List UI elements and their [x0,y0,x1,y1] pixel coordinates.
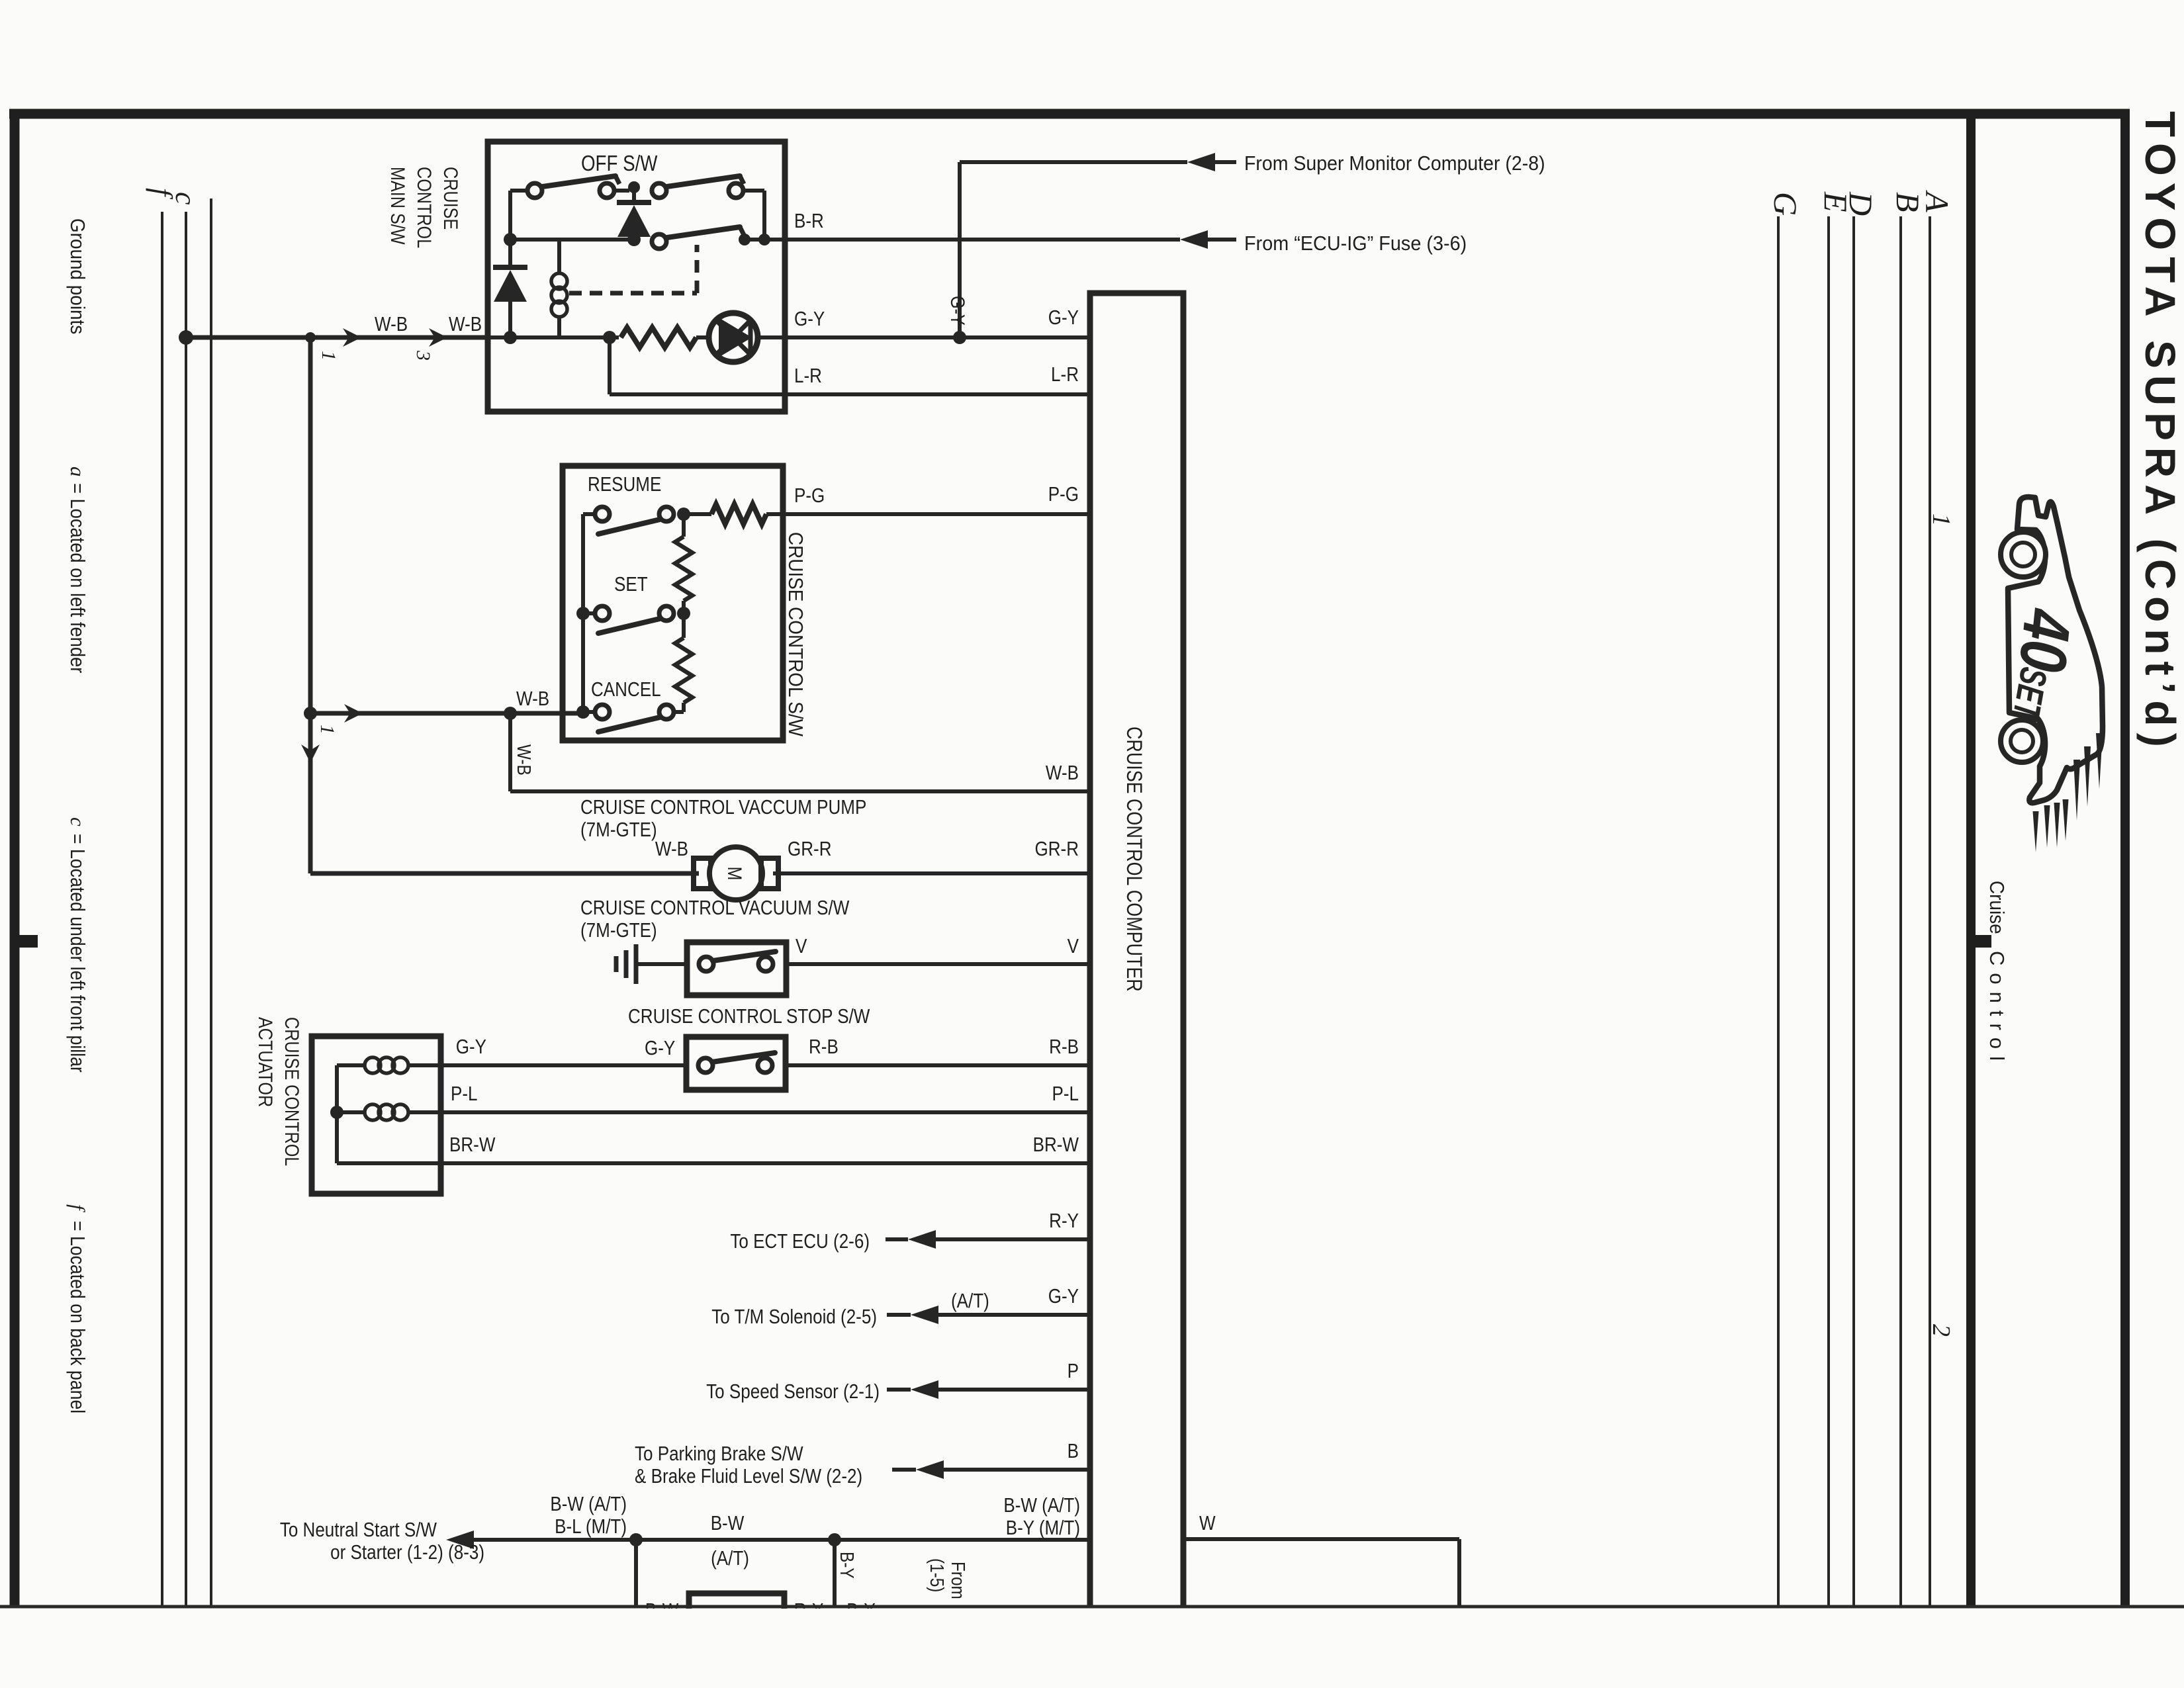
svg-text:B-W (A/T): B-W (A/T) [550,1493,627,1516]
junction relay contact [739,234,751,245]
solenoid coil L2 [337,1110,365,1114]
wire R-B [786,1063,1090,1067]
cruise control main switch box [488,142,785,412]
wire L-R [785,392,1090,396]
wire resume to resistor [684,512,711,516]
svg-text:(7M-GTE): (7M-GTE) [580,919,657,942]
title block left border section tick [1976,935,1991,948]
junction G-Y super monitor [953,331,966,344]
svg-text:= Located on back panel: = Located on back panel [66,1221,88,1413]
terminal off-sw b2 [729,183,743,198]
junction row2 left [504,233,517,246]
wire W-B down to computer run [508,713,512,791]
indicator lamp main-sw [709,313,758,362]
svg-text:(7M-GTE): (7M-GTE) [580,819,657,842]
scan mask below cut [0,1609,2184,1688]
svg-text:CANCEL: CANCEL [591,678,661,701]
pump terminal bracket right [761,858,778,889]
svg-text:W-B: W-B [514,744,535,776]
svg-text:CONTROL: CONTROL [414,167,436,248]
terminal cancel 1 [595,705,610,719]
terminal set 1 [595,606,610,621]
wire G-Y actuator to stop sw [441,1063,686,1067]
svg-text:B: B [1068,1440,1079,1463]
switch lever resume [598,519,660,534]
svg-text:R-Y: R-Y [1049,1210,1079,1233]
wire GR-R [773,871,1090,875]
svg-text:W: W [1199,1512,1216,1535]
terminal resume 2 [659,507,674,521]
switch lever relay-sw [667,227,740,238]
junction row1/row2 merge [758,234,770,245]
svg-text:GR-R: GR-R [1034,838,1079,861]
wire P to speed sensor [887,1388,911,1392]
svg-text:G-Y: G-Y [645,1037,675,1060]
car icon 40SET [2001,497,2103,803]
resistor R2 (resume) [711,504,766,524]
svg-text:BR-W: BR-W [1033,1133,1079,1157]
stop switch box [686,1037,786,1090]
svg-text:To Parking Brake S/W: To Parking Brake S/W [635,1443,803,1466]
switch lever off-sw b [667,176,740,187]
vacuum switch box [687,942,786,995]
svg-text:c: c [169,192,202,205]
svg-text:= Located under left front pil: = Located under left front pillar [66,834,88,1073]
svg-text:& Brake Fluid Level S/W (2-2): & Brake Fluid Level S/W (2-2) [635,1465,862,1488]
connector chevron W-B 1 [343,328,361,347]
svg-text:R-B: R-B [809,1036,839,1059]
wire W [1183,1537,1459,1541]
svg-text:From Super Monitor Computer (2: From Super Monitor Computer (2-8) [1244,152,1545,175]
svg-text:E: E [1817,191,1854,212]
terminal stop sw 1 [698,1058,713,1073]
svg-text:L-R: L-R [794,365,822,388]
svg-text:From: From [948,1562,969,1599]
svg-text:W-B: W-B [655,838,688,861]
wire cancel bus stub [583,710,595,714]
wire main-sw row1 left [510,189,529,193]
svg-text:1: 1 [318,351,340,361]
svg-text:G-Y: G-Y [947,296,970,326]
wire B-W main [469,1538,1090,1542]
svg-text:G: G [1767,192,1804,216]
junction cancel bus [576,705,590,719]
svg-text:From “ECU-IG” Fuse (3-6): From “ECU-IG” Fuse (3-6) [1244,232,1467,255]
solenoid coil L1 [337,1063,365,1067]
svg-text:ACTUATOR: ACTUATOR [255,1017,277,1107]
svg-text:B-L (M/T): B-L (M/T) [555,1515,627,1538]
wire lamp row [488,335,619,339]
svg-text:(A/T): (A/T) [951,1290,989,1313]
svg-text:CRUISE: CRUISE [440,167,463,230]
svg-text:BR-W: BR-W [449,1133,495,1157]
cruise control switch box [563,466,783,740]
svg-text:V: V [796,935,807,958]
actuator bus [335,1065,339,1163]
switch lever stop sw [712,1053,775,1062]
wire resistor to lamp [696,335,709,339]
option net line E [1827,216,1830,1607]
svg-text:3: 3 [412,350,434,361]
wire V [786,962,1090,966]
relay armature dashed link [569,291,697,296]
svg-text:W-B: W-B [1046,762,1079,785]
pump terminal bracket left [694,858,711,889]
svg-text:To Speed Sensor (2-1): To Speed Sensor (2-1) [706,1380,880,1403]
title block right border [2120,109,2130,1607]
resistor R4 (cancel chain) [682,613,686,638]
wire resistor to box edge [766,512,783,516]
arrow to neutral start sw [446,1531,474,1549]
wire B-W drop 1 [634,1540,638,1607]
svg-text:To ECT ECU (2-6): To ECT ECU (2-6) [730,1230,870,1253]
svg-text:= Located on left fender: = Located on left fender [66,483,89,674]
ground symbol [614,956,619,972]
junction W-B cancel branch [304,707,317,720]
wire G-Y main [785,335,1090,339]
option net line B [1899,216,1902,1607]
terminal set 2 [659,606,674,621]
resistor R1 (illumination) [621,328,696,347]
frame left border [10,109,20,1607]
wire B-Y drop [833,1540,837,1607]
ground bus line a [210,199,212,1607]
svg-text:P-G: P-G [1048,483,1079,506]
terminal stop sw 2 [758,1058,772,1073]
svg-text:To T/M Solenoid (2-5): To T/M Solenoid (2-5) [711,1306,877,1329]
wire P-G [783,512,1090,516]
junction B-W branch 1 [629,1533,643,1546]
connector chevron W-B cancel [344,704,363,723]
svg-text:a: a [66,466,89,477]
terminal cancel 2 [659,705,674,719]
wire G-Y to T/M solenoid [887,1313,911,1317]
svg-text:GR-R: GR-R [788,838,832,861]
terminal resume 1 [595,507,610,521]
arrow from ECU-IG fuse [1180,230,1208,249]
wire W-B vertical drop [308,337,313,873]
car speed lines [2096,733,2103,789]
switch lever cancel [598,717,660,732]
scan bottom edge line [0,1605,2184,1609]
junction on ground bus c [179,330,193,345]
title block left border [1966,109,1976,1607]
wire BR-W [337,1161,1090,1165]
terminal vacuum sw 2 [758,957,773,971]
terminal vacuum sw 1 [699,957,713,971]
svg-text:B-Y: B-Y [837,1552,858,1579]
svg-text:B-R: B-R [794,210,824,233]
ground bus line f [161,212,163,1607]
terminal off-sw a2 [600,183,614,198]
wire P-L [441,1110,1090,1114]
junction lamp-row diode [504,331,517,344]
cruise control actuator box [312,1036,441,1194]
wire ground to vacuum sw [636,962,687,966]
resistor R3 (set chain) [682,514,686,537]
wire G-Y to super monitor [958,162,962,337]
svg-text:or Starter (1-2) (8-3): or Starter (1-2) (8-3) [330,1541,484,1564]
ground bus line c [185,212,187,1607]
svg-text:CRUISE CONTROL VACUUM S/W: CRUISE CONTROL VACUUM S/W [580,897,849,920]
terminal off-sw b1 [652,183,666,198]
svg-text:2: 2 [1927,1324,1955,1337]
svg-text:W-B: W-B [449,313,482,336]
wire B to parking brake sw [892,1468,916,1472]
cruise control computer box [1090,293,1183,1607]
frame left border section tick [19,935,38,948]
svg-text:B: B [1889,192,1927,212]
junction set bus [576,607,590,620]
junction row1 diode top [628,181,640,193]
switch lever set [598,619,660,633]
terminal relay-sw 1 [652,234,666,249]
wire resume bus stub [583,512,595,516]
option net line D [1852,216,1855,1607]
svg-text:1: 1 [1927,513,1955,526]
wire lamp to box edge [758,335,785,339]
junction row2 diode bottom [627,233,641,246]
diode D1 (relay clamp) [617,200,651,205]
junction B-W branch 2 [828,1533,841,1546]
svg-text:CRUISE CONTROL S/W: CRUISE CONTROL S/W [784,532,807,736]
junction lamp-row branch [603,331,616,344]
svg-text:W-B: W-B [375,313,408,336]
wire B-R [785,238,1180,242]
option net line A [1929,216,1931,1607]
svg-text:(A/T): (A/T) [711,1547,749,1570]
junction W-B computer branch [504,707,517,720]
motor M vacuum pump [709,847,762,900]
svg-text:G-Y: G-Y [794,308,825,331]
wire R-Y to ECT ECU [886,1237,908,1241]
wire row2 [510,238,634,242]
svg-text:TOYOTA SUPRA (Cont’d): TOYOTA SUPRA (Cont’d) [2136,111,2184,754]
svg-text:To Neutral Start S/W: To Neutral Start S/W [280,1519,437,1542]
svg-text:CRUISE CONTROL STOP S/W: CRUISE CONTROL STOP S/W [628,1005,870,1028]
wire W-B ground feed [186,335,486,340]
junction set chain [677,607,690,620]
diode D2 (main-sw) [508,240,512,267]
wire branch to L-R [608,337,612,394]
svg-text:CRUISE CONTROL: CRUISE CONTROL [281,1017,304,1166]
svg-text:P-G: P-G [794,484,825,508]
arrow from super monitor computer [1187,153,1215,171]
switch lever vacuum sw [713,952,776,961]
svg-text:B-Y (M/T): B-Y (M/T) [1006,1517,1080,1540]
svg-text:c: c [66,817,89,826]
svg-text:SET: SET [614,573,648,596]
junction node 1 [305,332,316,343]
junction actuator P-L [330,1106,343,1119]
svg-text:P-L: P-L [451,1083,478,1106]
svg-text:Ground points: Ground points [66,218,89,334]
svg-text:Cruise: Cruise [1985,881,2009,934]
svg-text:G-Y: G-Y [456,1036,486,1059]
svg-text:L-R: L-R [1051,363,1079,386]
junction resume out [677,508,690,521]
svg-text:R-B: R-B [1049,1036,1079,1059]
svg-text:MAIN S/W: MAIN S/W [387,167,410,245]
svg-text:W-B: W-B [516,688,549,711]
svg-text:CRUISE CONTROL COMPUTER: CRUISE CONTROL COMPUTER [1122,727,1146,992]
wire W-B to cancel [310,711,583,716]
wire set bus stub [583,611,595,615]
connector chevron W-B down [301,744,320,763]
svg-text:B-W: B-W [711,1512,745,1535]
svg-text:G-Y: G-Y [1048,1285,1079,1308]
svg-text:OFF S/W: OFF S/W [581,152,658,176]
connector chevron W-B 3 [429,328,447,347]
svg-text:G-Y: G-Y [1048,306,1079,330]
svg-text:P: P [1068,1360,1079,1383]
left bus cruise-sw [581,514,585,712]
frame top border [9,109,2130,119]
wire W-B to pump [310,871,699,876]
wire row2 to B-R [745,238,785,242]
svg-text:(1-5): (1-5) [927,1558,948,1592]
svg-text:V: V [1068,935,1079,958]
svg-text:1: 1 [316,725,338,734]
bottom connector box (cut) [689,1593,784,1615]
wire row1 to B-R corner [743,189,764,193]
switch lever off-sw a [543,176,615,187]
svg-text:RESUME: RESUME [588,473,661,496]
option net line G [1777,216,1780,1607]
terminal off-sw a1 [527,183,542,198]
svg-text:M: M [724,867,747,881]
wire row1 mid [614,189,629,193]
svg-text:P-L: P-L [1052,1083,1079,1106]
svg-text:CRUISE CONTROL VACCUM PUMP: CRUISE CONTROL VACCUM PUMP [580,796,866,819]
relay coil main-sw [557,240,561,273]
svg-text:B-W (A/T): B-W (A/T) [1003,1494,1080,1517]
